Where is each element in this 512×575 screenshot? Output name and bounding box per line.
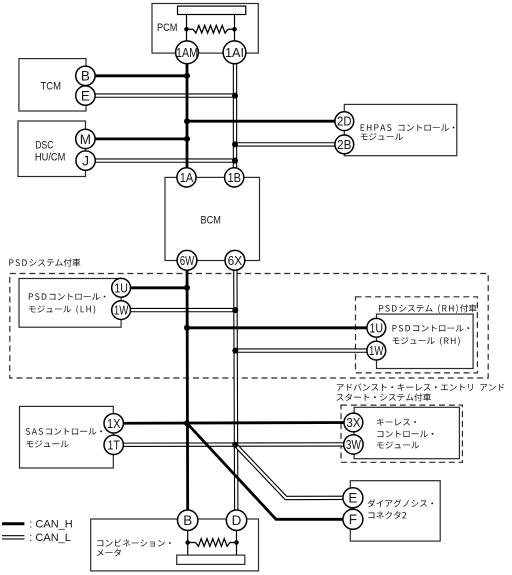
label PSD system equipped [9,259,80,267]
label combination meter [97,539,171,547]
legend CAN_L line sample [2,535,24,539]
wire CAN_L DSC J branch [86,158,235,162]
svg-text:1W: 1W [114,304,129,318]
ECU box keyless control module [354,407,459,458]
junction CAN_L at PSD RH 1W [232,348,238,354]
svg-text:3X: 3X [346,416,361,430]
svg-text:E: E [81,89,90,104]
svg-text:E: E [348,491,357,506]
svg-text:2B: 2B [337,138,352,152]
dashed group box PSD system RH equipped [356,297,478,373]
wire CAN_H PSD RH 1U branch [187,326,376,329]
junction CAN_H at PSD RH 1U [184,325,190,331]
svg-text:TCM: TCM [41,81,62,93]
terminal BCM 6X [225,250,245,270]
svg-text:1AM: 1AM [176,46,198,60]
wire PCM bus to resistor left [186,15,188,42]
junction PCM resistor right [232,27,237,32]
PCM internal bus bar [178,6,246,14]
terminal diagnosis F [343,509,363,529]
ECU box PSD control module RH [377,314,474,368]
svg-text:6W: 6W [180,254,195,268]
wire CAN_H BCM 6W to meter B [186,260,189,520]
junction CAN_L at PSD LH 1W [232,307,238,313]
svg-text:3W: 3W [346,438,361,452]
terminal BCM 1A [177,168,196,187]
svg-text:J: J [82,154,89,169]
svg-text:1B: 1B [227,171,241,185]
wire CAN_L PSD RH 1W branch [235,348,376,352]
meter internal bus bar [177,555,245,564]
junction CAN_H at SAS 1X [184,420,190,426]
terminal PSD RH 1W [367,341,386,360]
terminal BCM 1B [225,168,244,187]
terminal SAS 1T [104,435,123,454]
terminal keyless 3X [344,413,363,432]
wire CAN_L SAS 1T to keyless 3W [114,442,354,447]
junction CAN_L at diagnosis branch [232,442,238,448]
label keyless control module [377,418,416,425]
connector box diagnosis connector 2 [350,481,440,541]
terminal SAS 1X [104,414,123,433]
svg-text:F: F [349,512,357,527]
terminal EHPAS 2B [335,135,354,154]
ECU box TCM [19,59,86,111]
svg-text:1U: 1U [114,281,128,295]
wire CAN_L branch to diagnosis E [235,445,353,498]
label EHPAS control module [361,124,455,131]
svg-text:DSC: DSC [35,140,53,152]
svg-text:: CAN_H: : CAN_H [29,519,72,531]
svg-text:1X: 1X [107,417,121,431]
svg-text:6X: 6X [228,254,243,268]
junction CAN_H at DSC M [184,136,190,142]
svg-text:B: B [81,69,90,84]
wire CAN_H TCM B branch [85,74,187,77]
label advanced keyless entry and start system equipped [337,383,504,391]
wire meter resistor left lead [187,530,189,555]
terminal TCM B [76,66,95,85]
label SAS control module [26,428,102,435]
terminal PCM 1AI [223,41,246,64]
svg-text:B: B [183,513,192,528]
terminal BCM 6W [177,250,197,270]
terminating resistor in combination meter [196,539,231,547]
wire CAN_L BCM 6X to meter D [235,260,236,520]
svg-text:1U: 1U [370,321,384,335]
ECU box PSD control module LH [19,279,121,328]
label PSD control module LH [29,293,106,300]
svg-text:PCM: PCM [157,22,178,34]
svg-text:1T: 1T [107,438,120,452]
svg-text:2D: 2D [337,115,352,129]
ECU box EHPAS control module [344,104,457,155]
dashed group box keyless system [341,405,462,462]
junction PCM resistor left [184,27,189,32]
junction meter resistor left [185,540,190,545]
terminal TCM E [76,86,95,105]
terminal meter B [178,510,198,530]
terminating resistor in PCM [193,25,228,33]
wire CAN_H EHPAS 2D branch [187,120,344,123]
terminal PSD LH 1W [112,301,131,320]
junction meter resistor right [234,540,239,545]
terminal keyless 3W [344,435,363,454]
svg-text:1A: 1A [180,171,194,185]
legend CAN_H line sample [2,522,24,525]
terminal PSD LH 1U [112,278,131,297]
terminal meter D [226,510,246,530]
wire CAN_H PCM 1AM to BCM 1A [186,52,189,177]
junction CAN_H at TCM B [184,73,190,79]
terminal PCM 1AM [176,41,199,64]
ECU box BCM [165,177,260,260]
junction CAN_L at EHPAS 2B [232,141,238,147]
terminal diagnosis E [343,488,363,508]
wire meter resistor right lead [236,530,238,555]
terminal DSC J [76,151,95,170]
svg-text:M: M [80,132,91,147]
wire CAN_L PCM 1AI to BCM 1B [233,52,237,177]
box combination meter [91,519,259,571]
ECU box SAS control module [20,406,114,468]
svg-text:: CAN_L: : CAN_L [29,532,71,544]
svg-text:BCM: BCM [201,215,222,227]
wire CAN_L TCM E branch [85,93,235,97]
label PSD control module RH [393,325,470,332]
wire CAN_L EHPAS 2B branch [235,142,344,146]
terminal DSC M [76,129,95,148]
junction CAN_H at EHPAS 2D [184,118,190,124]
wire PCM bus to resistor right [234,15,236,42]
svg-text:D: D [232,513,242,528]
dashed group box PSD system equipped [10,274,488,379]
wire CAN_L PSD LH 1W branch [121,308,235,312]
junction CAN_L at DSC J [232,158,238,164]
junction CAN_L at TCM E [232,93,238,99]
wire CAN_H SAS 1X to keyless 3X [114,421,354,425]
svg-text:1AI: 1AI [225,46,244,60]
label PSD system RH equipped [379,304,477,313]
terminal PSD RH 1U [367,318,386,337]
svg-text:1W: 1W [369,344,384,358]
junction CAN_H at PSD LH 1U [184,285,190,291]
ECU box PCM [152,4,258,54]
ECU box DSC HU/CM [18,121,86,177]
wire CAN_H DSC M branch [85,137,187,140]
label diagnosis connector 2 [368,499,434,507]
wire CAN_H PSD LH 1U branch [121,286,187,289]
terminal EHPAS 2D [335,112,354,131]
wire CAN_H branch to diagnosis F [187,423,353,519]
svg-text:HU/CM: HU/CM [35,152,66,164]
